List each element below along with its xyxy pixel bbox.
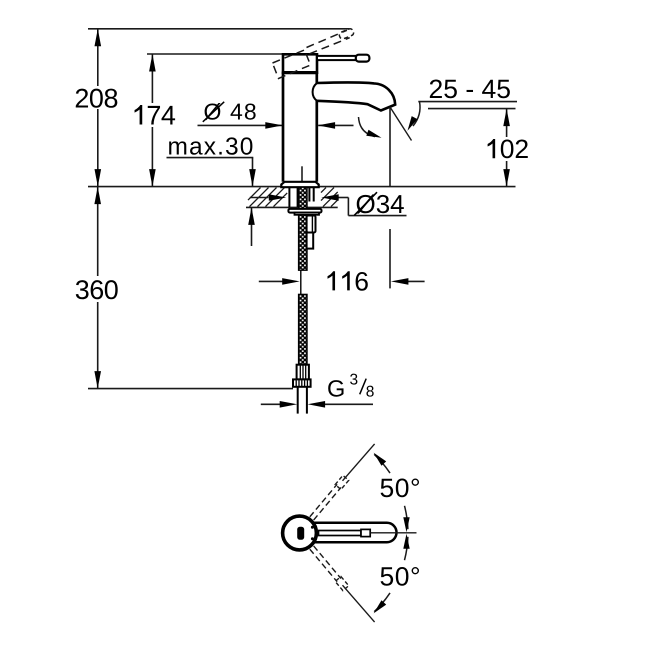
spout/body junction arc: [313, 83, 317, 101]
lever bar: [317, 56, 357, 60]
threaded shank upper segment: [299, 187, 307, 270]
lock nut under deck: [295, 213, 320, 215]
208 bottom arrow: [95, 169, 102, 187]
svg-text:8: 8: [366, 383, 375, 400]
svg-text:G: G: [327, 375, 345, 401]
svg-text:25 - 45: 25 - 45: [429, 74, 512, 104]
label 174: [135, 105, 143, 125]
plan: dot upper: [311, 526, 314, 529]
dimension 174 vertical line: [151, 54, 153, 103]
max.30 upper arrow line: [252, 158, 254, 187]
deck section hatching right of hole: [321, 188, 338, 207]
Ø34 leader: [347, 198, 349, 216]
G3/8 left arrow: [261, 403, 282, 405]
dimension 102 vertical line: [506, 109, 508, 137]
plan: raised lever upper dashed: [309, 475, 349, 520]
svg-text:Ø34: Ø34: [356, 189, 405, 219]
hose collet: [297, 365, 309, 380]
deck section hatching left of hole: [248, 188, 287, 207]
extension line: top of lever (174 datum): [147, 53, 282, 55]
25-45 leader arrow: [413, 102, 420, 126]
hose lower segment: [299, 294, 307, 364]
faucet body: [283, 72, 317, 182]
hose break thin line: [300, 270, 302, 294]
Ø48 left arrow: [198, 124, 283, 126]
raised lever grip (dashed): [338, 28, 354, 40]
plan: lower extension line 50deg: [343, 585, 375, 622]
plan: inner lever bar: [319, 531, 362, 536]
plan: upper extension line 50deg: [343, 444, 375, 481]
svg-text:Ø 48: Ø 48: [204, 99, 258, 125]
base flange: [281, 182, 318, 187]
max.30 lower arrow: [251, 207, 253, 246]
plan: centre line: [371, 532, 417, 534]
outlet swivel arc arrow: [359, 117, 376, 137]
116 right arrow: [406, 280, 425, 282]
plan: upper 50deg arc: [374, 454, 390, 473]
360 top arrow: [94, 187, 101, 205]
lever grip: [356, 55, 370, 62]
174 bottom arrow: [149, 169, 156, 187]
svg-text:02: 02: [500, 134, 529, 164]
Ø34 left arrow: [250, 197, 269, 199]
Ø34 right arrow: [334, 197, 348, 199]
max.30 underline: [167, 157, 254, 159]
label 116: [328, 271, 336, 290]
extension line: top of raised lever (208 datum): [88, 28, 350, 30]
plan: dot lower: [311, 537, 314, 540]
svg-text:74: 74: [146, 101, 176, 131]
plan: handle stadium: [310, 523, 397, 542]
plan: cartridge slot: [297, 527, 304, 540]
extension line: hose end (360 datum): [88, 388, 293, 390]
svg-text:3: 3: [350, 372, 359, 389]
fixing bolt upper: [307, 216, 316, 233]
deck top line: [88, 186, 516, 188]
dimension 208 vertical line: [97, 29, 99, 86]
208 top arrow: [95, 29, 102, 47]
outlet vertical extension line: [389, 108, 391, 187]
raised lever cap (dashed position): [273, 50, 311, 79]
svg-text:50°: 50°: [380, 561, 422, 591]
outlet level extension line (102 datum): [428, 108, 516, 110]
svg-text:208: 208: [74, 84, 118, 114]
174 top arrow: [149, 54, 156, 72]
connector nut: [293, 379, 311, 386]
outlet angle slant line: [390, 107, 412, 141]
head/body seam: [283, 71, 317, 74]
washer under deck: [288, 209, 321, 213]
pipe end: [297, 387, 299, 414]
deck bottom line: [246, 206, 338, 208]
raised lever bar (dashed): [307, 30, 347, 47]
116 left arrow: [259, 280, 284, 282]
plan: lower 50deg arc: [374, 593, 390, 612]
mounting sleeve right: [308, 187, 310, 201]
Ø48 right arrow: [318, 124, 353, 126]
spout: [317, 82, 396, 110]
faucet head cap: [283, 54, 317, 72]
svg-text:max.30: max.30: [168, 134, 255, 161]
fixing bolt lower: [307, 233, 314, 249]
G3/8 right arrow: [323, 403, 373, 405]
25-45 underline: [418, 101, 517, 103]
body centre line: [301, 166, 303, 181]
plan: faucet circle: [283, 516, 317, 550]
label 102: [488, 139, 496, 158]
svg-text:6: 6: [354, 266, 369, 296]
svg-text:360: 360: [75, 275, 119, 305]
dimension 360 vertical line: [97, 187, 99, 276]
360 bottom arrow: [94, 371, 101, 389]
svg-text:50°: 50°: [380, 473, 422, 503]
plan: raised lever lower dashed: [309, 545, 349, 590]
mounting sleeve left: [288, 187, 290, 207]
